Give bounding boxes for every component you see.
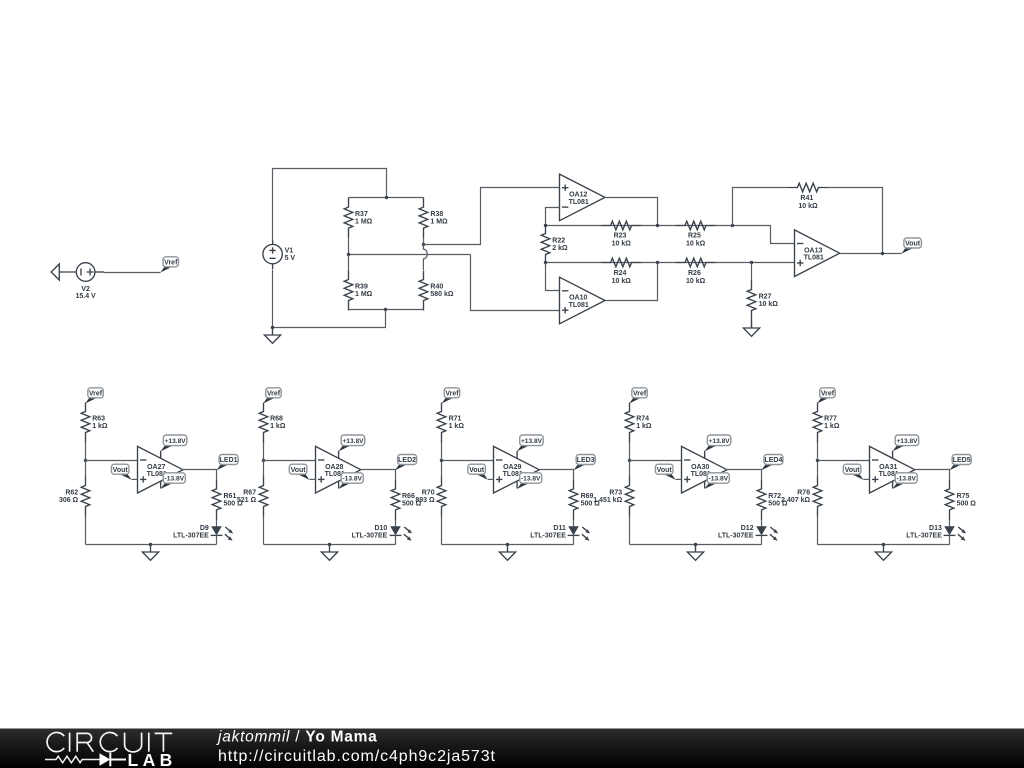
wire OA31 +in stub	[864, 478, 870, 480]
LED D13 LTL-307EE	[944, 526, 967, 541]
svg-text:+13.8V: +13.8V	[342, 438, 364, 445]
net flag -13.8V (block 5)	[893, 473, 918, 489]
svg-text:+13.8V: +13.8V	[521, 438, 543, 445]
resistor R70 893 Ohm	[415, 477, 445, 517]
svg-text:OA30: OA30	[691, 464, 709, 471]
wire bridge mid rail	[349, 254, 471, 256]
pin OA30 V+ stub	[704, 451, 706, 459]
LED D12 LTL-307EE	[756, 526, 779, 541]
svg-text:http://circuitlab.com/c4ph9c2j: http://circuitlab.com/c4ph9c2ja573t	[218, 748, 496, 765]
ground (left-pointing) for V2	[51, 264, 76, 280]
net flag -13.8V (block 3)	[517, 473, 542, 489]
svg-text:-13.8V: -13.8V	[521, 476, 541, 483]
net flag +13.8V (block 3)	[517, 435, 543, 451]
junction bridge bottom	[384, 308, 387, 311]
svg-text:Vref: Vref	[89, 390, 103, 397]
ground (block 2)	[321, 545, 337, 561]
junction ground block 1	[149, 543, 152, 546]
svg-text:R71: R71	[449, 416, 462, 423]
svg-text:D11: D11	[553, 525, 566, 532]
svg-text:R26: R26	[688, 270, 701, 277]
junction R23/R25	[656, 224, 659, 227]
wire	[263, 443, 265, 461]
op-amp OA29 TL081	[494, 446, 540, 493]
net flag Vout (block 2)	[289, 464, 309, 480]
svg-text:Vref: Vref	[164, 259, 178, 266]
svg-text:LED5: LED5	[953, 457, 971, 464]
wire	[216, 536, 218, 545]
wire	[573, 536, 575, 545]
wire V1- to ground	[272, 270, 274, 328]
pin OA28 V- stub	[338, 481, 340, 488]
wire	[216, 520, 218, 527]
wire	[263, 461, 265, 477]
svg-text:R40: R40	[430, 284, 443, 291]
resistor R76 2.407 kOhm	[781, 477, 822, 517]
svg-text:-13.8V: -13.8V	[342, 476, 362, 483]
wire	[761, 536, 763, 545]
svg-text:R72: R72	[768, 493, 781, 500]
ground (block 5)	[875, 545, 891, 561]
net flag Vref (block 2)	[263, 388, 281, 404]
pin OA29 V+ stub	[516, 451, 518, 459]
net flag LED4	[761, 455, 783, 471]
wire OA29 out	[540, 470, 574, 480]
svg-text:OA31: OA31	[879, 464, 897, 471]
svg-text:R38: R38	[430, 211, 443, 218]
junction ground block 4	[694, 543, 697, 546]
svg-text:Vref: Vref	[821, 390, 835, 397]
svg-text:Vout: Vout	[905, 241, 921, 248]
wire bridge bottom rail	[349, 309, 424, 311]
net flag Vout (amplifier output)	[901, 238, 921, 254]
svg-text:LTL-307EE: LTL-307EE	[906, 533, 942, 540]
svg-text:R77: R77	[824, 416, 837, 423]
junction ground block 3	[506, 543, 509, 546]
svg-text:LED3: LED3	[577, 457, 595, 464]
wire bridge bottom to ground	[273, 310, 386, 328]
junction R22 bottom	[544, 261, 547, 264]
net flag -13.8V (block 1)	[161, 473, 186, 489]
voltage source V2 15.4 V	[75, 263, 103, 300]
svg-text:-13.8V: -13.8V	[896, 476, 916, 483]
svg-text:R39: R39	[355, 284, 368, 291]
svg-text:jaktommil / Yo Mama: jaktommil / Yo Mama	[216, 729, 378, 746]
svg-text:Vout: Vout	[469, 467, 485, 474]
wire node to OA29 -in	[442, 460, 494, 462]
wire OA27 out	[183, 470, 217, 480]
svg-text:Vout: Vout	[657, 467, 673, 474]
net flag -13.8V (block 4)	[705, 473, 730, 489]
resistor R26 10 kOhm	[676, 258, 716, 285]
junction V1 ground	[271, 326, 274, 329]
svg-text:R62: R62	[65, 490, 78, 497]
svg-text:R75: R75	[957, 493, 970, 500]
wire	[817, 517, 819, 545]
svg-text:R23: R23	[614, 232, 627, 239]
resistor R75 500 Ohm	[945, 480, 976, 520]
net flag Vref (block 3)	[442, 388, 460, 404]
ground (R27)	[743, 321, 759, 337]
resistor R23 10 kOhm	[602, 221, 642, 247]
op-amp OA13 TL081	[795, 230, 840, 277]
svg-text:Vref: Vref	[633, 390, 647, 397]
logo resistor-diode glyph	[45, 756, 100, 763]
wire	[85, 461, 87, 477]
net flag LED2	[395, 455, 417, 471]
svg-text:D12: D12	[741, 525, 754, 532]
ground (block 1)	[142, 545, 158, 561]
junction bridge mid	[347, 253, 350, 256]
wire R22 bottom to OA10 -in	[546, 263, 560, 291]
junction R41/out	[881, 252, 884, 255]
junction ground block 5	[882, 543, 885, 546]
resistor R22 2 kOhm	[541, 225, 568, 265]
net flag Vref (block 1)	[85, 388, 103, 404]
svg-text:LTL-307EE: LTL-307EE	[718, 533, 754, 540]
svg-text:1 kΩ: 1 kΩ	[636, 423, 652, 430]
resistor R68 1 kOhm	[259, 403, 286, 443]
svg-text:893 Ω: 893 Ω	[415, 497, 435, 504]
resistor R37 1 MOhm	[344, 198, 372, 238]
resistor R74 1 kOhm	[625, 403, 652, 443]
voltage source V1 5 V	[263, 240, 296, 269]
resistor R40 580 kOhm	[419, 271, 454, 311]
net flag Vout (block 1)	[111, 464, 131, 480]
svg-text:1 kΩ: 1 kΩ	[92, 423, 108, 430]
wire	[629, 443, 631, 461]
wire node to OA31 -in	[818, 460, 870, 462]
wire OA10 out up	[606, 263, 658, 301]
svg-text:R37: R37	[355, 211, 368, 218]
wire block 3 bottom rail	[442, 544, 574, 546]
net flag Vref (block 5)	[817, 388, 835, 404]
svg-text:OA28: OA28	[325, 464, 343, 471]
junction block 3 input node	[440, 459, 443, 462]
svg-text:+13.8V: +13.8V	[709, 438, 731, 445]
svg-text:OA12: OA12	[569, 192, 587, 199]
svg-text:Vref: Vref	[267, 390, 281, 397]
svg-text:LTL-307EE: LTL-307EE	[530, 533, 566, 540]
ground (block 4)	[687, 545, 703, 561]
wire bridge top rail	[349, 197, 424, 199]
svg-text:LED2: LED2	[398, 457, 416, 464]
wire block 2 bottom rail	[264, 544, 396, 546]
svg-text:LED1: LED1	[220, 457, 238, 464]
svg-text:OA10: OA10	[569, 295, 587, 302]
resistor R72 500 Ohm	[757, 480, 788, 520]
resistor R63 1 kOhm	[81, 403, 108, 443]
wire OA30 +in stub	[676, 478, 682, 480]
junction ground block 2	[328, 543, 331, 546]
net flag Vref (V2 output)	[160, 257, 178, 273]
wire OA30 out	[727, 470, 762, 480]
wire block 5 bottom rail	[818, 544, 950, 546]
junction block 5 input node	[816, 459, 819, 462]
pin OA30 V- stub	[704, 481, 706, 488]
wire	[949, 520, 951, 527]
wire OA31 out	[915, 470, 950, 480]
wire R37 to mid rail	[348, 238, 350, 255]
wire lower rail to OA13 +in	[546, 262, 795, 264]
svg-text:TL081: TL081	[569, 199, 589, 206]
wire	[85, 443, 87, 461]
LED D9 LTL-307EE	[211, 526, 234, 541]
net flag Vout (block 3)	[468, 464, 488, 480]
wire OA13 out to Vout	[840, 253, 902, 255]
svg-text:1 MΩ: 1 MΩ	[355, 219, 373, 226]
resistor R69 500 Ohm	[569, 480, 600, 520]
wire R38 to node	[423, 238, 425, 245]
junction R25/R41	[731, 224, 734, 227]
wire upper rail to OA13 -in	[546, 226, 795, 244]
svg-text:D10: D10	[374, 525, 387, 532]
pin OA31 V+ stub	[892, 451, 894, 459]
wire bridge to OA12 +in	[424, 188, 560, 245]
net flag -13.8V (block 2)	[339, 473, 364, 489]
wire R27 to ground	[751, 321, 753, 328]
junction R22 top	[544, 224, 547, 227]
svg-text:Vout: Vout	[291, 467, 307, 474]
LED D10 LTL-307EE	[390, 526, 413, 541]
svg-text:R70: R70	[422, 490, 435, 497]
svg-text:Vref: Vref	[445, 390, 459, 397]
svg-text:TL081: TL081	[804, 255, 824, 262]
svg-text:TL081: TL081	[569, 302, 589, 309]
wire	[441, 461, 443, 477]
svg-text:500 Ω: 500 Ω	[957, 500, 977, 507]
wire OA12 -in to R22 top	[546, 208, 560, 226]
wire hop R40 column over mid rail	[423, 245, 427, 270]
wire mid rail to OA10 +in	[471, 255, 560, 311]
svg-text:1 kΩ: 1 kΩ	[824, 423, 840, 430]
svg-text:LAB: LAB	[128, 750, 177, 768]
junction R38/R40	[422, 243, 425, 246]
junction block 1 input node	[84, 459, 87, 462]
resistor R67 521 Ohm	[237, 477, 268, 517]
wire V1+ to bridge top	[273, 169, 387, 241]
svg-text:521 Ω: 521 Ω	[237, 497, 257, 504]
wire	[441, 443, 443, 461]
svg-text:OA29: OA29	[503, 464, 521, 471]
resistor R24 10 kOhm	[602, 258, 642, 285]
svg-text:-13.8V: -13.8V	[165, 476, 185, 483]
net flag LED3	[574, 455, 596, 471]
svg-text:R22: R22	[552, 238, 565, 245]
wire	[573, 520, 575, 527]
svg-text:R24: R24	[614, 270, 627, 277]
resistor R62 306 Ohm	[59, 477, 90, 517]
op-amp OA30 TL081	[682, 446, 727, 493]
op-amp OA10 TL081	[560, 277, 606, 324]
net flag LED1	[217, 455, 239, 471]
svg-text:1 MΩ: 1 MΩ	[355, 291, 373, 298]
svg-text:Vout: Vout	[113, 467, 129, 474]
net flag +13.8V (block 4)	[705, 435, 731, 451]
pin OA29 V- stub	[516, 481, 518, 488]
svg-text:306 Ω: 306 Ω	[59, 497, 79, 504]
wire OA27 +in stub	[132, 478, 138, 480]
junction block 4 input node	[628, 459, 631, 462]
wire OA28 out	[361, 470, 396, 480]
svg-text:R66: R66	[402, 493, 415, 500]
svg-text:R68: R68	[270, 416, 283, 423]
svg-text:R27: R27	[759, 294, 772, 301]
svg-text:10 kΩ: 10 kΩ	[686, 240, 706, 247]
wire node to OA28 -in	[264, 460, 316, 462]
op-amp OA28 TL081	[316, 446, 361, 493]
svg-text:10 kΩ: 10 kΩ	[686, 278, 706, 285]
svg-text:+13.8V: +13.8V	[165, 438, 187, 445]
wire	[629, 517, 631, 545]
wire OA12 out down	[606, 198, 658, 226]
wire	[817, 461, 819, 477]
resistor R39 1 MOhm	[344, 271, 372, 311]
wire block 1 bottom rail	[86, 544, 217, 546]
svg-text:10 kΩ: 10 kΩ	[798, 203, 818, 210]
svg-text:+13.8V: +13.8V	[896, 438, 918, 445]
svg-text:R63: R63	[92, 416, 105, 423]
svg-text:D9: D9	[200, 525, 209, 532]
resistor R38 1 MOhm	[419, 198, 448, 238]
net flag Vref (block 4)	[629, 388, 647, 404]
svg-text:1 MΩ: 1 MΩ	[430, 219, 448, 226]
svg-text:R61: R61	[224, 493, 237, 500]
wire	[263, 517, 265, 545]
net flag Vout (block 5)	[843, 464, 863, 480]
wire	[761, 520, 763, 527]
svg-text:R76: R76	[797, 490, 810, 497]
junction R24/R26	[656, 261, 659, 264]
net flag +13.8V (block 1)	[161, 435, 187, 451]
wire R41 to output	[828, 188, 883, 254]
wire OA28 +in stub	[310, 478, 316, 480]
svg-text:R41: R41	[800, 195, 813, 202]
wire node to OA27 -in	[86, 460, 138, 462]
svg-text:2.407 kΩ: 2.407 kΩ	[781, 497, 810, 504]
junction R26/R27	[750, 261, 753, 264]
LED D11 LTL-307EE	[568, 526, 591, 541]
ground (V1)	[264, 328, 280, 344]
resistor R27 10 kOhm	[747, 281, 778, 321]
wire	[949, 536, 951, 545]
wire to R41	[733, 188, 788, 226]
svg-text:1 kΩ: 1 kΩ	[449, 423, 465, 430]
pin OA31 V- stub	[892, 481, 894, 488]
svg-text:LED4: LED4	[764, 457, 782, 464]
wire	[629, 461, 631, 477]
net flag Vout (block 4)	[655, 464, 675, 480]
svg-text:2 kΩ: 2 kΩ	[552, 245, 568, 252]
svg-text:580 kΩ: 580 kΩ	[430, 291, 454, 298]
svg-text:D13: D13	[929, 525, 942, 532]
wire	[85, 517, 87, 545]
wire block 4 bottom rail	[630, 544, 762, 546]
wire mid rail to R39	[348, 255, 350, 271]
svg-text:R69: R69	[581, 493, 594, 500]
wire V2 to Vref	[104, 272, 161, 274]
junction bridge top	[385, 196, 388, 199]
wire OA29 +in stub	[488, 478, 494, 480]
svg-text:R25: R25	[688, 232, 701, 239]
net flag +13.8V (block 5)	[893, 435, 919, 451]
resistor R73 1.451 kOhm	[593, 477, 634, 517]
svg-text:LTL-307EE: LTL-307EE	[173, 533, 209, 540]
net flag +13.8V (block 2)	[339, 435, 365, 451]
resistor R25 10 kOhm	[676, 221, 716, 247]
wire to R27	[751, 263, 753, 281]
svg-text:V1: V1	[285, 247, 294, 254]
junction block 2 input node	[262, 459, 265, 462]
op-amp OA12 TL081	[560, 174, 606, 221]
svg-text:1 kΩ: 1 kΩ	[270, 423, 286, 430]
svg-text:10 kΩ: 10 kΩ	[759, 301, 779, 308]
wire	[395, 520, 397, 527]
ground (block 3)	[499, 545, 515, 561]
svg-text:R74: R74	[636, 416, 649, 423]
resistor R66 500 Ohm	[391, 480, 421, 520]
resistor R77 1 kOhm	[813, 403, 840, 443]
svg-text:V2: V2	[81, 286, 90, 293]
svg-text:OA27: OA27	[147, 464, 165, 471]
svg-text:1.451 kΩ: 1.451 kΩ	[593, 497, 622, 504]
op-amp OA27 TL081	[138, 446, 183, 493]
svg-text:R67: R67	[243, 490, 256, 497]
CircuitLab logo CIRCUIT (stroked letters)	[47, 732, 172, 751]
pin OA27 V+ stub	[160, 451, 162, 459]
resistor R61 500 Ohm	[212, 480, 243, 520]
resistor R41 10 kOhm	[788, 183, 828, 210]
wire node to OA30 -in	[630, 460, 682, 462]
wire	[817, 443, 819, 461]
op-amp OA31 TL081	[870, 446, 915, 493]
net flag LED5	[950, 455, 972, 471]
svg-text:OA13: OA13	[804, 247, 822, 254]
svg-text:10 kΩ: 10 kΩ	[612, 240, 632, 247]
pin OA28 V+ stub	[338, 451, 340, 459]
resistor R71 1 kOhm	[437, 403, 464, 443]
svg-text:10 kΩ: 10 kΩ	[612, 278, 632, 285]
svg-text:R73: R73	[609, 490, 622, 497]
svg-text:-13.8V: -13.8V	[709, 476, 729, 483]
pin OA27 V- stub	[160, 481, 162, 488]
svg-text:Vout: Vout	[845, 467, 861, 474]
svg-text:15.4 V: 15.4 V	[75, 293, 96, 300]
svg-text:LTL-307EE: LTL-307EE	[352, 533, 388, 540]
svg-text:5 V: 5 V	[285, 255, 296, 262]
wire	[441, 517, 443, 545]
wire	[395, 536, 397, 545]
